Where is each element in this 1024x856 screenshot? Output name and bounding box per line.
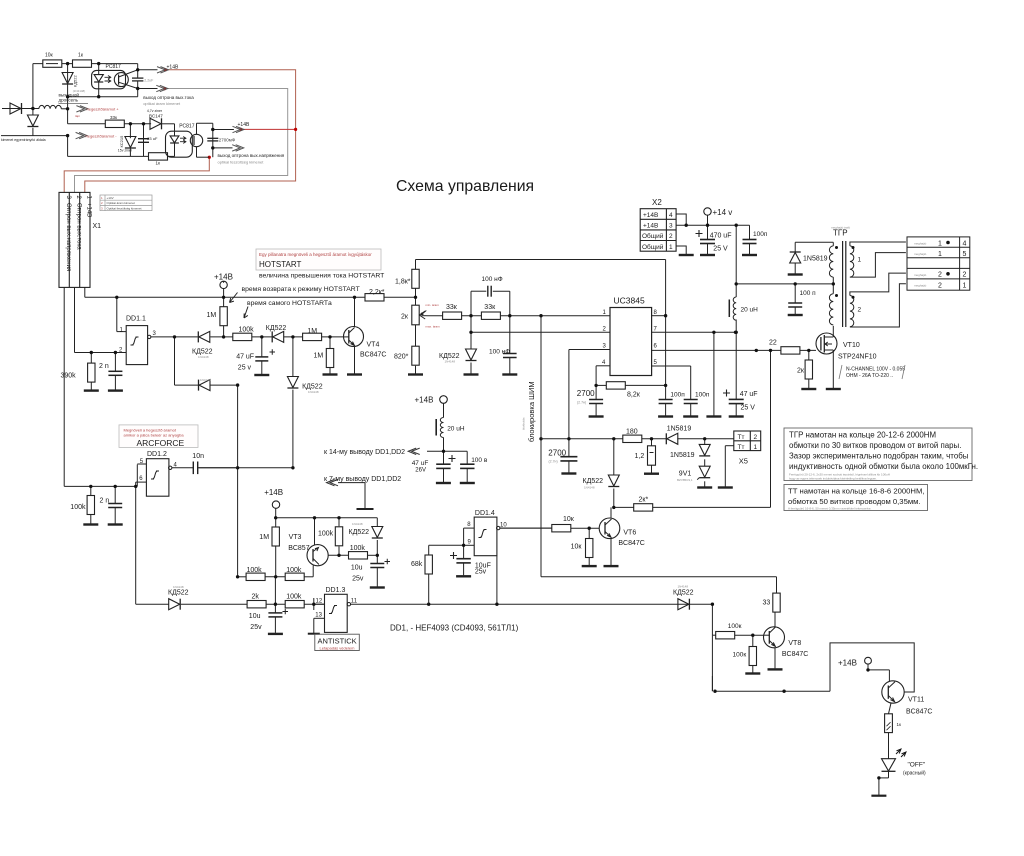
svg-text:(2.7н): (2.7н) [577,401,586,405]
svg-text:kimenet egyenirányító áldala: kimenet egyenirányító áldala [1,138,46,142]
svg-text:100k: 100k [247,567,263,574]
svg-text:22: 22 [769,340,777,347]
svg-text:1: 1 [938,240,942,247]
svg-text:КС215: КС215 [119,135,124,148]
svg-text:ARCFORCE: ARCFORCE [137,438,185,448]
svg-text:STP24NF10: STP24NF10 [838,354,877,361]
svg-text:13: 13 [315,613,322,619]
svg-text:1: 1 [754,444,758,451]
svg-text:1M: 1M [314,353,324,360]
svg-text:Тт: Тт [738,434,745,441]
svg-text:время самого HOTSTARTа: время самого HOTSTARTа [247,300,332,307]
svg-text:КД522: КД522 [73,75,78,87]
svg-text:1: 1 [963,282,967,289]
svg-text:к 7-му выводу DD1,DD2: к 7-му выводу DD1,DD2 [324,476,401,483]
svg-text:1: 1 [938,251,942,258]
svg-text:blokkolás: blokkolás [522,417,526,430]
svg-text:время возврата к режиму HOTSTA: время возврата к режиму HOTSTART [242,286,360,293]
svg-text:DD1.4: DD1.4 [475,510,495,517]
svg-text:2: 2 [754,434,758,441]
svg-text:2: 2 [938,272,942,279]
svg-text:BC847C: BC847C [906,709,932,716]
svg-text:ТГР намотан на кольце 20-12-6: ТГР намотан на кольце 20-12-6 2000НМ [789,431,936,440]
svg-text:DD1, - HEF4093 (CD4093, 561: DD1, - HEF4093 (CD4093, 561ТЛ1) [390,624,519,633]
svg-text:X5: X5 [739,457,748,466]
svg-text:+14В: +14В [643,212,658,219]
svg-text:КД522: КД522 [168,590,189,597]
svg-text:hegesztőáramot +: hegesztőáramot + [87,107,120,112]
svg-text:КД522: КД522 [583,478,604,485]
svg-text:VT4: VT4 [367,342,380,349]
svg-text:23 uF: 23 uF [147,136,158,141]
svg-text:1N4148: 1N4148 [173,585,184,589]
svg-text:+14V: +14V [107,196,114,200]
svg-text:2к: 2к [797,368,805,375]
svg-text:10n: 10n [192,453,204,460]
svg-text:47 uF: 47 uF [412,460,429,467]
svg-text:1N4148: 1N4148 [198,355,209,359]
svg-text:BC847C: BC847C [782,651,808,658]
svg-text:1: 1 [858,257,862,264]
svg-text:+14B: +14B [415,396,434,405]
svg-text:Оптрон вых.напряжения: Оптрон вых.напряжения [65,203,71,271]
svg-text:1M: 1M [207,312,217,319]
svg-text:1N4148: 1N4148 [445,360,456,364]
svg-text:DD1.2: DD1.2 [147,451,167,458]
svg-text:обмотки по 30 витков проводом: обмотки по 30 витков проводом от витой п… [789,441,961,450]
svg-text:выход оптрона вых.напряжения: выход оптрона вых.напряжения [218,153,285,158]
svg-text:4: 4 [963,240,967,247]
svg-text:1N4148: 1N4148 [200,378,211,382]
svg-text:1M: 1M [307,328,317,335]
svg-text:25v: 25v [475,569,487,576]
svg-text:VT8: VT8 [788,640,801,647]
svg-text:1M: 1M [259,534,269,541]
svg-text:1к: 1к [78,53,84,59]
svg-text:390k: 390k [61,373,77,380]
svg-text:optikai áram kimenet: optikai áram kimenet [143,101,181,106]
svg-text:1N4148: 1N4148 [308,390,319,394]
svg-text:DD1.3: DD1.3 [326,587,346,594]
svg-text:2 n: 2 n [99,363,109,370]
svg-text:meghajtó: meghajtó [914,252,927,256]
svg-text:180: 180 [626,429,638,436]
svg-text:DD1.1: DD1.1 [126,316,146,323]
svg-text:1N5819: 1N5819 [670,452,695,459]
svg-text:3: 3 [669,223,673,230]
svg-text:+14В: +14В [238,122,250,128]
svg-text:10: 10 [500,522,507,528]
svg-text:+14В: +14В [838,659,857,668]
svg-text:N-CHANNEL 100V - 0.055: N-CHANNEL 100V - 0.055 [846,367,905,373]
svg-text:+14 v: +14 v [713,208,733,217]
svg-text:10к: 10к [563,516,575,523]
svg-text:10u: 10u [249,613,261,620]
svg-text:100к: 100к [728,623,742,630]
svg-text:BC847C: BC847C [618,540,644,547]
svg-text:10u: 10u [351,565,363,572]
svg-text:блокировка ШИМ: блокировка ШИМ [527,381,536,442]
svg-text:2: 2 [963,272,967,279]
svg-text:47 uF: 47 uF [740,391,758,398]
svg-text:1N4148: 1N4148 [352,522,363,526]
svg-text:100 п: 100 п [800,290,817,297]
svg-text:max. áram: max. áram [426,325,441,329]
svg-text:20 uH: 20 uH [741,307,759,314]
svg-text:25 V: 25 V [741,405,756,412]
svg-text:+14В: +14В [167,65,179,71]
svg-text:HOTSTART: HOTSTART [259,260,301,269]
svg-text:hogy az egyes tekercsek indukt: hogy az egyes tekercsek induktivitása kí… [789,477,877,481]
svg-text:Схема управления: Схема управления [396,178,534,195]
svg-text:X2: X2 [652,198,662,207]
svg-text:2к*: 2к* [639,497,649,504]
svg-text:VT10: VT10 [843,342,860,349]
svg-text:100 нФ: 100 нФ [489,349,510,356]
svg-text:Letapadás védelem: Letapadás védelem [320,645,356,650]
svg-text:+14B: +14B [264,488,283,497]
svg-text:100k: 100k [286,594,302,601]
svg-text:100п: 100п [753,231,768,238]
svg-text:КД522: КД522 [349,529,370,536]
svg-text:индуктивность одной обмотки бы: индуктивность одной обмотки была около 1… [789,462,978,471]
svg-text:2: 2 [858,307,862,314]
svg-text:min. áram: min. áram [426,303,440,307]
svg-text:meghajtó: meghajtó [914,242,927,246]
svg-text:33к: 33к [110,115,117,120]
svg-text:КД522: КД522 [266,325,287,332]
svg-text:ANTISTICK: ANTISTICK [318,637,357,646]
svg-text:(2.7н): (2.7н) [549,460,558,464]
svg-text:Optikai áram kimenet: Optikai áram kimenet [107,201,136,205]
svg-text:hegesztőáramot -: hegesztőáramot - [86,134,118,139]
svg-text:2700мФ: 2700мФ [219,137,236,142]
svg-text:BZV85C9,1: BZV85C9,1 [677,478,693,482]
svg-text:величина превышения тока HOTST: величина превышения тока HOTSTART [259,273,384,280]
svg-text:2k: 2k [252,594,260,601]
svg-text:100k: 100k [350,545,366,552]
svg-text:5: 5 [963,251,967,258]
svg-text:VT3: VT3 [289,534,302,541]
svg-text:1N5819: 1N5819 [803,256,828,263]
svg-text:ТТ намотан на кольце 16-8-6 20: ТТ намотан на кольце 16-8-6 2000НМ, [788,487,925,496]
svg-text:4: 4 [669,212,673,219]
svg-text:2700: 2700 [577,389,595,398]
svg-text:2: 2 [938,282,942,289]
svg-text:2к: 2к [401,314,409,321]
svg-text:A ferritgyűrű 16-8-6, 50 menet: A ferritgyűrű 16-8-6, 50 menet 0,35mm ve… [788,506,872,510]
svg-text:2,2к*: 2,2к* [369,289,385,296]
svg-text:20 uH: 20 uH [447,426,465,433]
svg-text:68k: 68k [411,561,423,568]
svg-text:обмотка 50 витков проводом 0,3: обмотка 50 витков проводом 0,35мм. [788,497,921,506]
svg-text:100п: 100п [670,392,685,399]
svg-text:Тт: Тт [738,444,745,451]
svg-text:tápi: tápi [75,114,80,118]
svg-text:25v: 25v [352,576,364,583]
svg-text:25 V: 25 V [713,246,728,253]
svg-text:PC817: PC817 [106,64,122,70]
svg-text:33к: 33к [446,304,458,311]
svg-text:Общий: Общий [642,232,664,240]
svg-text:ТГР: ТГР [833,229,848,238]
svg-text:PC817: PC817 [179,123,195,129]
svg-text:Оптрон вых.тока: Оптрон вых.тока [75,203,81,250]
svg-text:"OFF": "OFF" [908,762,926,769]
svg-text:1к: 1к [156,161,161,166]
svg-text:2,2uF: 2,2uF [144,78,153,82]
svg-text:КД522: КД522 [673,590,694,597]
svg-text:Зазор экспериментально подобра: Зазор экспериментально подобран таким, ч… [789,452,969,461]
svg-text:amikor a pálca beleér az anyag: amikor a pálca beleér az anyagba [124,433,185,438]
svg-text:33к: 33к [484,304,496,311]
svg-text:100 в: 100 в [471,457,488,464]
svg-text:к 14-му выводу DD1,DD2: к 14-му выводу DD1,DD2 [324,449,405,456]
svg-text:Optikai feszültség kimenet: Optikai feszültség kimenet [107,206,142,210]
svg-text:1: 1 [669,244,673,251]
svg-text:25 v: 25 v [238,365,252,372]
svg-text:1,2: 1,2 [635,453,645,460]
svg-text:meghajtó trafó: meghajtó trafó [831,226,851,230]
svg-text:470 uF: 470 uF [710,233,732,240]
svg-text:4,7v ziner: 4,7v ziner [147,109,163,113]
svg-text:UC3845: UC3845 [614,296,645,306]
svg-text:выход оптрона вых.тока: выход оптрона вых.тока [143,95,194,100]
svg-text:meghajtó: meghajtó [914,284,927,288]
svg-text:2700: 2700 [548,449,566,458]
svg-text:meghajtó: meghajtó [914,273,927,277]
svg-text:820*: 820* [394,354,409,361]
svg-text:2 n: 2 n [100,498,110,505]
svg-text:OHM - 26A TO-220 ..: OHM - 26A TO-220 .. [846,373,893,379]
svg-text:100п: 100п [695,392,710,399]
svg-text:47 uF: 47 uF [236,354,254,361]
svg-text:2: 2 [669,233,673,240]
svg-text:+14В: +14В [643,223,658,230]
svg-text:33: 33 [763,600,771,607]
svg-text:100 нФ: 100 нФ [482,276,503,283]
svg-text:optikai feszültség kimenet: optikai feszültség kimenet [218,159,265,164]
svg-text:(красный): (красный) [903,770,926,777]
svg-text:12: 12 [316,599,323,605]
svg-text:9V1: 9V1 [679,471,692,478]
svg-text:1N5819: 1N5819 [667,426,692,433]
svg-text:100к: 100к [733,652,747,659]
svg-text:BC857: BC857 [288,545,310,552]
svg-text:+14В: +14В [86,203,92,217]
svg-text:11: 11 [351,599,358,605]
svg-text:100k: 100k [318,531,334,538]
svg-text:+14В: +14В [214,273,233,282]
svg-text:VT11: VT11 [908,697,924,704]
svg-text:100k: 100k [239,327,255,334]
svg-text:VT6: VT6 [623,530,636,537]
svg-text:8,2к: 8,2к [627,392,641,399]
svg-text:1,8к*: 1,8к* [395,279,411,286]
svg-text:1N4148: 1N4148 [678,585,689,589]
svg-text:X1: X1 [93,223,102,230]
svg-text:10к: 10к [45,53,54,59]
svg-text:BC147: BC147 [149,113,163,118]
svg-text:Egy pillanatra megnöveli a heg: Egy pillanatra megnöveli a hegesztő áram… [259,252,372,257]
svg-text:25v: 25v [250,624,262,631]
svg-text:100k: 100k [286,567,302,574]
svg-text:BC847C: BC847C [360,352,386,359]
svg-text:26V: 26V [415,468,426,474]
svg-text:Общий: Общий [642,243,664,251]
svg-text:100k: 100k [70,504,86,511]
svg-text:10к: 10к [571,544,583,551]
svg-text:дроссель: дроссель [59,98,79,103]
svg-text:1N4148: 1N4148 [584,486,595,490]
svg-text:15v ziner: 15v ziner [118,148,133,152]
svg-text:1к: 1к [897,722,902,727]
